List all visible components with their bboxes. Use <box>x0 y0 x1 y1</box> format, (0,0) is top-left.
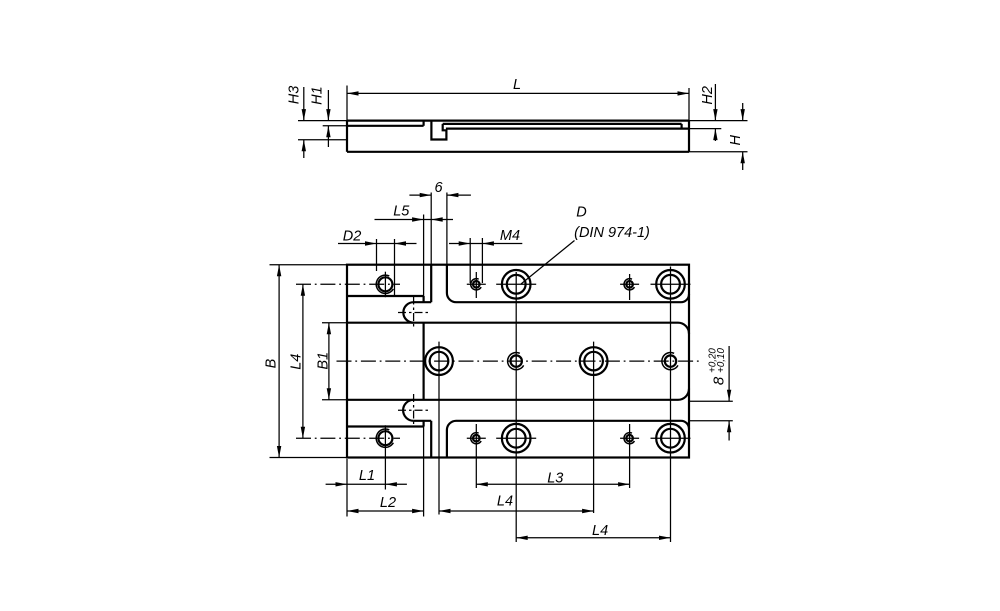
centerline: central hole 1 vertical <box>438 342 440 515</box>
dimension H2 line lower <box>714 129 716 141</box>
side view: gib lip end step <box>680 124 682 129</box>
svg-text:L4: L4 <box>497 494 513 510</box>
dimension 8 line lower <box>728 421 730 441</box>
plan view: fork step line upper <box>347 295 424 297</box>
dimension L3 right arrow <box>618 482 630 486</box>
dimension 8 ext bottom <box>689 420 733 422</box>
dimension L4 vertical line <box>302 284 304 438</box>
svg-text:D2: D2 <box>343 228 362 244</box>
centerline: M4 bottom hole cross <box>467 437 486 439</box>
hole D2 bottom: core circle <box>378 431 392 445</box>
side view: gib lip top line <box>443 123 682 125</box>
dimension L4 vertical top arrow <box>301 284 305 296</box>
dimension 6 ext left <box>430 193 432 265</box>
svg-text:6: 6 <box>435 180 444 196</box>
svg-text:L5: L5 <box>393 203 410 219</box>
hole D2 top: core circle <box>378 277 392 291</box>
dimension H2 line upper <box>714 84 716 121</box>
dimension B ext top <box>270 264 348 266</box>
hole central 3: outer circle <box>580 347 608 375</box>
dimension L4 bottom-2 line <box>516 537 670 539</box>
dimension 8 lower arrow <box>727 421 731 433</box>
dimension H1 line upper <box>327 90 329 121</box>
side view: saddle step vertical <box>423 121 425 126</box>
hole M4 bottom-1: core circle <box>473 435 480 442</box>
dimension L4 bottom-2 left arrow <box>516 536 528 540</box>
dimension L5 left arrow <box>412 217 424 221</box>
hole M4 top-2: core circle <box>626 281 633 288</box>
dimension L4 bottom-1 right arrow <box>582 509 594 513</box>
side view: plate left edge <box>346 121 348 152</box>
dimension L5 ext <box>423 215 425 297</box>
dimension B top arrow <box>277 265 281 277</box>
dimension L1 line <box>326 483 407 485</box>
dimension B1 ext bottom <box>322 399 347 401</box>
dimension 8 line upper <box>728 346 730 401</box>
dimension B1 line <box>328 323 330 400</box>
centerline: D2 hole top vertical <box>384 272 386 298</box>
dimension H2 lower arrow <box>713 129 717 141</box>
side view: plate bottom edge <box>347 151 689 153</box>
dimension B1 ext top <box>322 322 347 324</box>
hole central 1: inner circle <box>430 352 449 371</box>
plan view: slot left edge lower <box>430 421 432 458</box>
centerline: M4 bottom hole 2 cross <box>620 437 639 439</box>
svg-text:B: B <box>263 358 279 368</box>
dimension H2 upper arrow <box>713 109 717 121</box>
dimension H lower arrow <box>741 152 745 164</box>
plan view: slot left edge upper <box>430 265 432 303</box>
plan view: central band top line with rounded corner <box>347 323 689 334</box>
hole counterbore bottom-2: inner circle <box>661 429 680 448</box>
hole counterbore top-1: inner circle <box>507 275 526 294</box>
svg-text:L: L <box>513 77 521 93</box>
plan view: central band bottom line with rounded corner <box>347 389 689 400</box>
centerline: M4 hole top-2 vertical <box>629 274 631 300</box>
dimension L right arrow <box>678 91 690 95</box>
hole D2 top: thread arc <box>376 275 393 293</box>
plan view: central band left vertical <box>423 323 425 400</box>
dimension H3 lower arrow <box>302 140 306 152</box>
dimension H upper arrow <box>741 109 745 121</box>
hole central 4: thread arc <box>662 353 678 370</box>
dimension L left arrow <box>347 91 359 95</box>
dimension H1 lower arrow <box>326 126 330 138</box>
dimension L4 vertical bottom arrow <box>301 427 305 439</box>
side view: plate right edge <box>688 121 690 152</box>
centerline: counterbore column 1 vertical <box>515 272 517 542</box>
dimension M4 ext right <box>481 238 483 283</box>
dimension H1 line lower <box>327 126 329 147</box>
plan view: plate outline rectangle <box>347 265 689 458</box>
svg-text:H: H <box>728 134 744 145</box>
centerline: slit notch upper vertical <box>413 297 415 329</box>
dimension H line lower <box>742 152 744 170</box>
svg-text:L2: L2 <box>380 495 396 511</box>
hole counterbore top-2: outer circle <box>656 270 685 299</box>
bottom ext: fork step line <box>423 427 425 517</box>
centerline: M4 hole bottom-1 vertical extending to L3 dimension <box>475 424 477 488</box>
side view: gib lip bottom line <box>446 128 689 130</box>
svg-text:H1: H1 <box>310 86 326 105</box>
dimension L1 left arrow <box>336 482 348 486</box>
dimension D2 left arrow <box>365 241 377 245</box>
dimension M4 right arrow <box>482 241 494 245</box>
svg-text:B1: B1 <box>316 352 332 370</box>
centerline: counterbore column 2 vertical <box>670 267 672 543</box>
plan view: fork step vertical lower <box>423 421 425 427</box>
svg-text:H2: H2 <box>700 86 716 105</box>
svg-text:L4: L4 <box>289 354 305 370</box>
plan view: slit top line <box>414 301 432 303</box>
hole counterbore bottom-1: inner circle <box>507 429 526 448</box>
hole M4 top-1: thread arc <box>471 279 481 290</box>
dimension L4 bottom-1 left arrow <box>439 509 451 513</box>
side view: H3 extension line <box>298 139 347 141</box>
svg-text:L4: L4 <box>592 523 608 539</box>
dimension 8 upper arrow <box>727 390 731 402</box>
centerline: M4 hole top-1 vertical <box>475 272 477 298</box>
dimension 6 right arrow <box>447 193 459 197</box>
centerline: bottom hole row <box>296 437 400 439</box>
dimension 6 line right <box>447 194 471 196</box>
dimension L2 left arrow <box>347 509 359 513</box>
dimension D2 right arrow <box>395 241 407 245</box>
side view: L extension left <box>346 86 348 121</box>
dimension D2 ext right <box>394 239 396 296</box>
dimension L4 bottom-2 right arrow <box>659 536 671 540</box>
centerline: central axis <box>337 360 701 362</box>
centerline: counterbore bottom hole 1 cross <box>496 437 536 439</box>
svg-text:D: D <box>576 205 586 221</box>
svg-text:(DIN 974-1): (DIN 974-1) <box>574 225 650 241</box>
dimension B1 bottom arrow <box>327 388 331 400</box>
dimension B line <box>278 265 280 458</box>
dimension D2 line <box>338 243 417 245</box>
hole M4 bottom-2: core circle <box>626 435 633 442</box>
hole central 2: core circle <box>511 355 522 366</box>
dimension B1 top arrow <box>327 323 331 335</box>
dimension H3 line lower <box>303 140 305 158</box>
dimension B ext bottom <box>270 457 348 459</box>
centerline: counterbore top hole 2 cross <box>651 283 691 285</box>
hole M4 top-2: thread arc <box>624 279 634 290</box>
svg-text:8: 8 <box>711 376 728 385</box>
side view: slot notch profile <box>431 121 446 140</box>
centerline: M4 top hole 2 cross <box>620 283 639 285</box>
centerline: slit notch upper horizontal <box>398 311 431 313</box>
centerline: central hole 3 vertical <box>593 342 595 513</box>
dimension M4 ext left <box>469 238 471 283</box>
hole central 1: outer circle <box>425 347 453 375</box>
centerline: slit notch lower vertical <box>413 394 415 426</box>
plan view: top strip boundary <box>447 265 689 303</box>
svg-text:M4: M4 <box>500 228 520 244</box>
centerline: slit notch lower horizontal <box>398 409 431 411</box>
dimension 8 ext top <box>689 400 733 402</box>
dimension B bottom arrow <box>277 446 281 458</box>
centerline: M4 hole bottom-2 vertical extending to L3 dimension <box>629 424 631 488</box>
dimension L2 right arrow <box>412 509 424 513</box>
dimension 6 left arrow <box>420 193 432 197</box>
dimension H line upper <box>742 103 744 121</box>
side view: top surface line <box>347 119 689 121</box>
hole central 3: inner circle <box>584 352 603 371</box>
dimension L line <box>347 92 689 94</box>
hole D2 bottom: thread arc <box>376 429 393 447</box>
dimension M4 line <box>449 243 522 245</box>
hole counterbore top-2: inner circle <box>661 275 680 294</box>
dimension L2 line <box>347 510 424 512</box>
dimension M4 left arrow <box>459 241 471 245</box>
svg-text:L1: L1 <box>359 468 375 484</box>
centerline: top hole row <box>296 283 400 285</box>
hole counterbore top-1: outer circle <box>502 270 531 299</box>
svg-text:+0,10: +0,10 <box>716 348 727 373</box>
hole M4 bottom-2: thread arc <box>624 433 634 444</box>
bottom ext: plate left edge <box>346 459 348 517</box>
dimension H3 upper arrow <box>302 109 306 121</box>
dimension L5 right arrow <box>431 217 443 221</box>
plan view: bottom strip boundary <box>447 421 689 458</box>
dimension D2 ext left <box>376 239 378 271</box>
hole M4 top-1: core circle <box>473 281 480 288</box>
svg-text:L3: L3 <box>547 470 563 486</box>
side view: saddle top extension left <box>323 125 347 127</box>
plan view: fork step vertical upper <box>423 296 425 302</box>
leader line to counterbore hole D <box>521 241 575 285</box>
dimension H1 upper arrow <box>326 109 330 121</box>
dimension L3 line <box>476 483 629 485</box>
dimension L4 bottom-1 line <box>439 510 594 512</box>
side view: saddle top line <box>347 125 424 127</box>
centerline: counterbore top hole 1 cross <box>496 283 536 285</box>
hole counterbore bottom-2: outer circle <box>656 424 685 453</box>
centerline: D2 hole bottom vertical extending to L1 dimension <box>384 425 386 489</box>
dimension L5 line <box>375 219 454 221</box>
side view: L extension right <box>688 88 690 121</box>
dimension L1 right arrow <box>385 482 397 486</box>
hole counterbore bottom-1: outer circle <box>502 424 531 453</box>
hole central 2: thread arc <box>508 353 524 370</box>
plan view: slit end arc lower <box>403 400 414 421</box>
hole central 4: core circle <box>665 355 676 366</box>
plan view: fork step line lower <box>347 425 424 427</box>
dimension 6 ext right <box>446 193 448 265</box>
side view: bottom edge extension right <box>689 151 748 153</box>
side view: gib lip bottom extension right <box>689 128 721 130</box>
dimension 6 line left <box>409 194 431 196</box>
dimension L3 left arrow <box>476 482 488 486</box>
side view: top surface extension left <box>298 120 347 122</box>
centerline: counterbore bottom hole 2 cross <box>651 437 691 439</box>
svg-text:H3: H3 <box>286 86 302 105</box>
plan view: slit end arc upper <box>403 302 413 323</box>
centerline: M4 top hole cross <box>467 283 486 285</box>
plan view: slit bottom line <box>414 420 432 422</box>
hole M4 bottom-1: thread arc <box>471 433 481 444</box>
side view: top surface extension right <box>689 120 748 122</box>
dimension H3 line upper <box>303 87 305 121</box>
